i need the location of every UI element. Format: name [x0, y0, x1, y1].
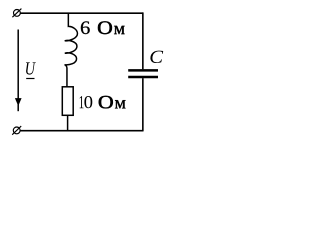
- inductor L 6 Om: [65, 13, 78, 88]
- terminal bottom-left: [12, 126, 21, 135]
- wire top rail: [20, 12, 143, 14]
- label 10 Om value: [80, 96, 84, 108]
- label C: [150, 51, 163, 63]
- label U underlined: [26, 62, 36, 74]
- wire right rail upper: [142, 12, 144, 69]
- capacitor C: [128, 70, 158, 77]
- wire resistor to bottom rail: [67, 115, 69, 130]
- arrow U (voltage arrow): [17, 30, 19, 112]
- wire bottom rail: [20, 130, 143, 132]
- resistor 10 Om: [62, 87, 73, 116]
- terminal top-left: [12, 9, 21, 18]
- wire right rail lower: [142, 78, 144, 131]
- label 6 Om value: [81, 21, 90, 34]
